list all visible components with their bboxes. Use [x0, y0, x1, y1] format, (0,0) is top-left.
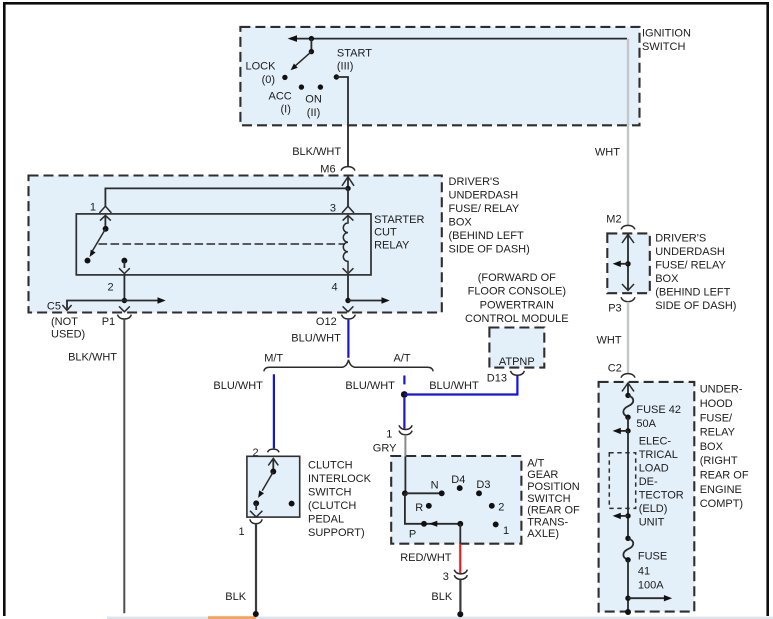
svg-text:1: 1 [239, 526, 245, 538]
node switch pivot [309, 49, 314, 54]
pin M6 entry chevron [342, 177, 354, 186]
svg-text:FUSE/ RELAY: FUSE/ RELAY [655, 259, 726, 271]
node ignition top [309, 36, 314, 41]
svg-text:BOX: BOX [449, 217, 473, 229]
wire down to pin 3 [347, 188, 349, 206]
svg-text:A/T: A/T [394, 353, 411, 365]
svg-text:ATPNP: ATPNP [499, 356, 535, 368]
svg-text:FUSE/: FUSE/ [700, 412, 733, 424]
svg-text:BLK/WHT: BLK/WHT [292, 146, 341, 158]
svg-text:3: 3 [330, 203, 336, 215]
svg-text:UNIT: UNIT [639, 516, 665, 528]
svg-text:C2: C2 [608, 363, 622, 375]
clutch unused contact [289, 501, 295, 507]
pin 1 chevron inner [100, 215, 111, 220]
node pin4 branch [345, 298, 350, 303]
svg-text:A/T: A/T [527, 457, 544, 469]
svg-text:COMPT): COMPT) [700, 498, 743, 510]
node box bottom [625, 609, 631, 615]
svg-text:(FORWARD OF: (FORWARD OF [478, 272, 556, 284]
svg-text:ACC: ACC [269, 91, 292, 103]
clutch arm arrowhead [258, 490, 264, 498]
svg-text:POWERTRAIN: POWERTRAIN [480, 299, 554, 311]
wire START output [336, 77, 348, 166]
svg-text:3: 3 [443, 571, 449, 583]
pin O12 chevron [343, 306, 354, 311]
svg-text:USED): USED) [51, 329, 85, 341]
switch arm ignition [295, 52, 312, 67]
arrow M2 left [618, 263, 628, 265]
svg-text:FLOOR CONSOLE): FLOOR CONSOLE) [468, 286, 566, 298]
under-hood fuse/relay box [599, 382, 695, 612]
wire junction to box bottom [459, 524, 461, 544]
svg-text:HOOD: HOOD [700, 398, 733, 410]
contact D4 [457, 485, 463, 491]
svg-text:BLU/WHT: BLU/WHT [429, 380, 479, 392]
svg-text:PEDAL: PEDAL [308, 514, 344, 526]
svg-text:(RIGHT: (RIGHT [700, 455, 738, 467]
svg-text:2: 2 [498, 501, 504, 513]
contact 2 [489, 503, 495, 509]
svg-text:GEAR: GEAR [527, 469, 558, 481]
svg-text:BOX: BOX [700, 441, 724, 453]
wire switch pivot stub [310, 39, 312, 52]
svg-text:BLK: BLK [225, 591, 246, 603]
svg-text:TECTOR: TECTOR [639, 489, 684, 501]
svg-text:D4: D4 [451, 474, 465, 486]
svg-text:BOX: BOX [655, 273, 679, 285]
svg-text:R: R [415, 502, 423, 514]
svg-text:1: 1 [503, 525, 509, 537]
connector 1 below clutch [250, 519, 262, 523]
svg-text:BLK: BLK [431, 591, 452, 603]
relay arm arrowhead [90, 250, 96, 257]
starter cut relay box [76, 214, 371, 275]
relay output contact node [121, 258, 127, 264]
connector D13 [510, 371, 524, 375]
svg-text:UNDERDASH: UNDERDASH [655, 246, 725, 258]
svg-text:(NOT: (NOT [51, 316, 78, 328]
contact 1 [493, 521, 499, 527]
svg-text:BLU/WHT: BLU/WHT [213, 380, 263, 392]
svg-text:1: 1 [386, 429, 392, 441]
wire junction to D13 [404, 375, 517, 394]
svg-text:2: 2 [108, 282, 114, 294]
svg-text:100A: 100A [638, 580, 664, 592]
arrow left ELD bottom [619, 515, 629, 517]
wire A/T blue upper segment [403, 376, 405, 385]
wire through ELD [627, 431, 629, 538]
svg-text:(REAR OF: (REAR OF [527, 505, 580, 517]
driver's underdash box (right, M2/P3) [607, 233, 650, 293]
node pin2 branch [122, 298, 127, 303]
svg-text:AXLE): AXLE) [527, 528, 559, 540]
P3 exit chevron [622, 284, 634, 290]
a/t gear position switch box [391, 456, 521, 544]
node ELD bottom [625, 513, 630, 518]
svg-text:WHT: WHT [595, 147, 620, 159]
arrow pin4 right [348, 300, 384, 302]
wire WHT inside ignition down right side [627, 39, 629, 226]
wire RED/WHT [459, 544, 461, 574]
svg-text:O12: O12 [316, 316, 337, 328]
ignition switch box [240, 27, 639, 125]
relay coil [343, 216, 348, 272]
svg-text:M6: M6 [320, 163, 335, 175]
pin 3 chevron inner [343, 215, 354, 220]
switch arm arrowhead [291, 64, 298, 71]
svg-text:BLK/WHT: BLK/WHT [68, 351, 117, 363]
ELD unit box [609, 453, 635, 509]
relay mechanical link (dashed) [99, 243, 346, 245]
node wiper-red junction [457, 521, 463, 527]
svg-text:FUSE 42: FUSE 42 [636, 404, 681, 416]
node ELD top [625, 428, 630, 433]
svg-text:1: 1 [90, 202, 96, 214]
bottom strip orange highlight [208, 616, 256, 619]
wire branch to pin 1 [105, 188, 348, 206]
fuse 41 [625, 536, 630, 541]
svg-text:BLU/WHT: BLU/WHT [345, 380, 395, 392]
page border frame top [3, 2, 769, 5]
wire wiper down and right [405, 493, 460, 524]
wire contact to pin 1 [255, 503, 257, 510]
wire C2 chevron to fuse42 [627, 383, 629, 395]
svg-text:RED/WHT: RED/WHT [400, 552, 452, 564]
svg-text:SUPPORT): SUPPORT) [308, 527, 365, 539]
svg-text:UNDERDASH: UNDERDASH [449, 190, 519, 202]
svg-text:START: START [337, 48, 372, 60]
svg-text:TRICAL: TRICAL [639, 449, 678, 461]
wire chevron to contact [272, 458, 274, 471]
connector P1 [117, 315, 131, 319]
node A/T wiper junction [402, 490, 408, 496]
node A/T junction [401, 391, 408, 398]
wire pin 2 to P1 [123, 275, 125, 301]
svg-text:REAR OF: REAR OF [700, 470, 749, 482]
relay contact top [103, 226, 109, 232]
svg-text:IGNITION: IGNITION [642, 28, 691, 40]
arrow pin2 right [124, 300, 159, 302]
svg-text:SWITCH: SWITCH [527, 493, 570, 505]
svg-text:INTERLOCK: INTERLOCK [308, 473, 372, 485]
C2 entry chevron [622, 383, 634, 391]
svg-text:(BEHIND LEFT: (BEHIND LEFT [655, 286, 730, 298]
svg-text:P3: P3 [608, 303, 621, 315]
svg-text:RELAY: RELAY [374, 239, 410, 251]
contact N [439, 490, 445, 496]
svg-text:LOAD: LOAD [639, 462, 669, 474]
svg-text:STARTER: STARTER [374, 214, 424, 226]
driver's underdash fuse/relay box [29, 176, 442, 313]
wire through M2 box [627, 235, 629, 290]
contact START [334, 74, 339, 79]
wire BLK/WHT left column [123, 320, 125, 614]
pin 2 chevron [119, 268, 130, 273]
contact D3 [476, 490, 482, 496]
svg-text:CUT: CUT [374, 226, 397, 238]
svg-text:FUSE: FUSE [638, 551, 667, 563]
svg-text:DE-: DE- [639, 476, 658, 488]
node A/T ground [457, 611, 463, 617]
wire into A/T switch [404, 456, 406, 493]
wiper arrowhead toward P [429, 521, 437, 527]
wire pin1 into contact [104, 216, 106, 229]
arrow right battery feed [628, 597, 666, 599]
svg-text:P: P [409, 528, 416, 540]
contact P [421, 521, 427, 527]
contact ON [318, 84, 323, 89]
contact LOCK [282, 75, 287, 80]
svg-text:POSITION: POSITION [527, 481, 580, 493]
wire pin 4 to O12 [347, 275, 349, 301]
clutch pin 1 chevron [250, 511, 262, 517]
svg-text:DRIVER'S: DRIVER'S [655, 232, 706, 244]
connector P3 [621, 297, 635, 301]
split brace M/T-A/T [264, 360, 433, 372]
pin 4 chevron [343, 268, 354, 273]
svg-text:SWITCH: SWITCH [308, 487, 351, 499]
wire contact to pin 2 [123, 261, 125, 268]
svg-text:SWITCH: SWITCH [642, 41, 685, 53]
svg-text:(I): (I) [281, 103, 291, 115]
M2 entry chevron [622, 235, 634, 243]
pin P1 chevron [119, 306, 130, 311]
node clutch ground [253, 611, 259, 617]
connector O12 [341, 315, 355, 319]
wire BLK below connector 3 [459, 580, 461, 613]
svg-text:BLU/WHT: BLU/WHT [291, 333, 341, 345]
wire M/T blue [273, 374, 275, 448]
svg-text:C5: C5 [47, 301, 61, 313]
svg-text:SIDE OF DASH): SIDE OF DASH) [655, 300, 736, 312]
svg-text:(III): (III) [337, 61, 354, 73]
relay contact bottom [85, 258, 91, 264]
svg-text:41: 41 [638, 565, 650, 577]
contact ACC [299, 84, 304, 89]
wire C5 branch [67, 301, 124, 309]
wire WHT P3 to C2 [627, 302, 629, 374]
svg-text:CONTROL MODULE: CONTROL MODULE [465, 313, 569, 325]
fuse 42 [625, 393, 630, 398]
svg-text:D3: D3 [476, 479, 490, 491]
svg-text:FUSE/ RELAY: FUSE/ RELAY [449, 203, 520, 215]
svg-text:(CLUTCH: (CLUTCH [308, 500, 356, 512]
wire fuse41 down [627, 560, 629, 612]
bottom strip [107, 617, 773, 619]
node battery feed [625, 596, 630, 601]
svg-text:ON: ON [305, 94, 322, 106]
svg-text:D13: D13 [487, 373, 507, 385]
svg-text:ENGINE: ENGINE [700, 484, 742, 496]
svg-text:(BEHIND LEFT: (BEHIND LEFT [449, 230, 524, 242]
svg-text:WHT: WHT [597, 335, 622, 347]
pin 3 chevron outer [342, 206, 354, 213]
svg-text:50A: 50A [636, 418, 656, 430]
wire GRY [404, 435, 406, 456]
svg-text:TRANS-: TRANS- [527, 516, 568, 528]
wire to contact N [405, 492, 442, 494]
clutch contact bottom [253, 500, 259, 506]
svg-text:M/T: M/T [264, 353, 283, 365]
page border frame right [766, 2, 769, 616]
svg-text:UNDER-: UNDER- [700, 384, 743, 396]
wire BLK clutch to ground [255, 524, 257, 613]
svg-text:DRIVER'S: DRIVER'S [449, 176, 500, 188]
svg-text:RELAY: RELAY [700, 427, 736, 439]
node M2 box [625, 261, 630, 266]
wire A/T blue lower segment [403, 398, 405, 429]
svg-text:4: 4 [332, 282, 338, 294]
wire fuse42 to node [627, 417, 629, 431]
svg-text:(0): (0) [262, 74, 275, 86]
clutch contact top [270, 469, 276, 475]
clutch switch arm [262, 472, 273, 491]
arrow left of node [619, 430, 629, 432]
svg-text:(ELD): (ELD) [639, 503, 668, 515]
wire O12 blue down [347, 320, 349, 358]
svg-text:CLUTCH: CLUTCH [308, 460, 353, 472]
clutch interlock switch box [247, 456, 300, 517]
PCM ATPNP box [489, 328, 544, 368]
svg-text:N: N [431, 479, 439, 491]
wire: ignition feed top horizontal [290, 38, 627, 40]
wire M6 to node [347, 177, 349, 189]
svg-text:GRY: GRY [373, 442, 397, 454]
svg-text:ELEC-: ELEC- [639, 435, 672, 447]
relay switch arm [93, 229, 106, 251]
arrow feed left [288, 35, 297, 42]
svg-text:(II): (II) [307, 107, 320, 119]
C5 down open arrowhead [62, 305, 71, 310]
clutch pin 2 chevron [268, 458, 278, 465]
node M6 branch [345, 186, 350, 191]
svg-text:LOCK: LOCK [246, 61, 277, 73]
svg-text:SIDE OF DASH): SIDE OF DASH) [449, 244, 530, 256]
svg-text:M2: M2 [606, 213, 621, 225]
svg-text:P1: P1 [102, 316, 115, 328]
page border frame left [3, 2, 6, 616]
contact R [426, 503, 432, 509]
pin 1 chevron outer [99, 206, 111, 213]
